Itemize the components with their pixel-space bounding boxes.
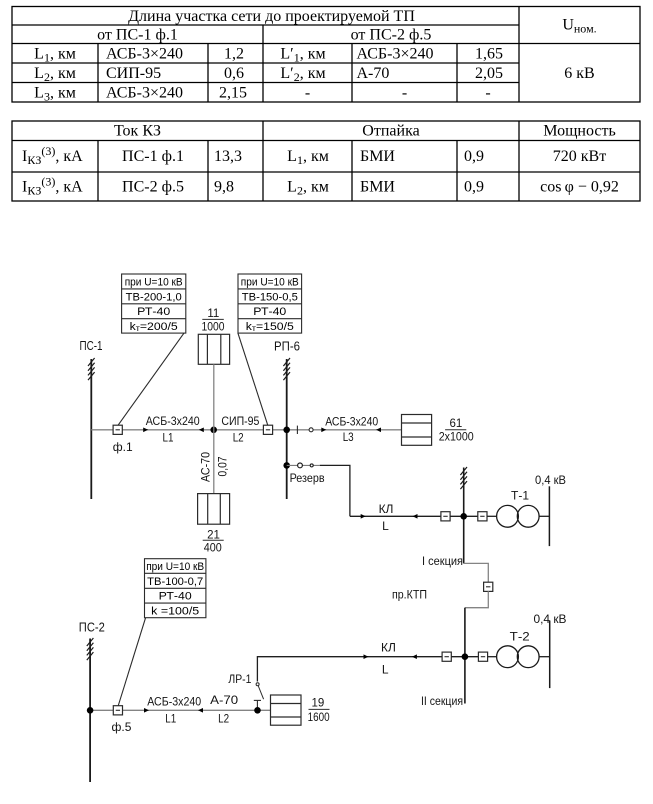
- disconnector ЛР-1 pivot circle: [256, 683, 259, 686]
- wire breaker to T-1: [487, 515, 497, 517]
- wire breaker to bus I: [450, 515, 478, 517]
- tick on L3: [296, 426, 298, 434]
- wire L1 ПС-1 to junction: [91, 429, 213, 431]
- svg-text:2,15: 2,15: [219, 84, 247, 101]
- svg-text:А-70: А-70: [210, 693, 238, 707]
- junction node I секция: [460, 513, 467, 520]
- svg-text:21: 21: [207, 529, 220, 541]
- svg-text:СИП-95: СИП-95: [221, 414, 259, 428]
- load block 19/1600: [271, 695, 302, 725]
- junction node ПС-2: [87, 707, 94, 714]
- wire ПС-2 line L1: [90, 709, 213, 711]
- wire T-2 to 0,4 кВ bus: [539, 656, 550, 658]
- svg-text:при U=10 кВ: при U=10 кВ: [241, 276, 299, 288]
- breaker on L2: [263, 425, 272, 434]
- svg-text:Резерв: Резерв: [290, 471, 325, 485]
- arrow left ПС-2 L1: [198, 708, 203, 713]
- svg-text:0,4 кВ: 0,4 кВ: [535, 473, 566, 487]
- svg-text:L2, км: L2, км: [287, 179, 329, 198]
- transformer block 21/400: [198, 494, 230, 525]
- breaker ф.1: [113, 425, 122, 434]
- svg-text:II секция: II секция: [421, 694, 463, 708]
- breaker T-2: [478, 652, 487, 661]
- svg-text:ПС-1: ПС-1: [80, 338, 103, 353]
- svg-text:L2, км: L2, км: [34, 65, 76, 84]
- info box A (при U=10 кВ / ТВ-200-1,0 / РТ-40 / kт=200/5): [122, 274, 186, 333]
- svg-text:АСБ-3×240: АСБ-3×240: [357, 45, 434, 62]
- breaker T-1: [478, 512, 487, 521]
- breaker КЛ2 left: [442, 652, 451, 661]
- wire breaker to II секция: [451, 656, 478, 658]
- svg-text:0,6: 0,6: [224, 65, 244, 82]
- svg-text:L3: L3: [343, 430, 354, 444]
- arrow right КЛ1: [361, 514, 366, 519]
- wire Резерв to КЛ corner: [320, 465, 350, 516]
- svg-text:1,65: 1,65: [475, 45, 503, 62]
- svg-text:РТ-40: РТ-40: [159, 591, 192, 603]
- fraction bar 11/1000: [202, 318, 224, 320]
- svg-text:КЛ: КЛ: [381, 640, 396, 654]
- transformer T-2: [497, 646, 519, 668]
- svg-text:0,07: 0,07: [216, 456, 230, 476]
- busbar ПС-2 hatch: [87, 638, 94, 660]
- svg-text:720 кВт: 720 кВт: [553, 148, 606, 165]
- svg-text:1000: 1000: [202, 321, 225, 333]
- svg-text:400: 400: [204, 543, 222, 555]
- svg-text:L3, км: L3, км: [34, 84, 76, 103]
- svg-text:-: -: [485, 84, 490, 101]
- svg-text:1600: 1600: [308, 712, 330, 724]
- fraction bar 21/400: [203, 539, 224, 541]
- svg-text:АСБ-3х240: АСБ-3х240: [146, 414, 200, 428]
- wire L3 РП-6 to block 61: [287, 429, 402, 431]
- busbar 0,4 кВ (T-2): [549, 621, 551, 689]
- svg-text:L′1, км: L′1, км: [280, 45, 325, 64]
- svg-text:Мощность: Мощность: [543, 122, 616, 139]
- arrow left L3: [376, 428, 381, 433]
- svg-text:L2: L2: [218, 712, 229, 726]
- svg-text:-: -: [305, 84, 310, 101]
- svg-text:пр.КТП: пр.КТП: [392, 588, 427, 602]
- svg-text:Ток КЗ: Ток КЗ: [114, 122, 161, 139]
- small circle on L3: [309, 428, 313, 432]
- svg-text:АСБ-3×240: АСБ-3×240: [106, 84, 183, 101]
- svg-text:ПС-2: ПС-2: [79, 620, 105, 635]
- svg-text:ЛР-1: ЛР-1: [228, 672, 251, 686]
- svg-text:ТВ-100-0,7: ТВ-100-0,7: [147, 576, 203, 588]
- svg-text:cos φ − 0,92: cos φ − 0,92: [540, 179, 619, 196]
- wire ЛР-1 stem to junction: [256, 700, 258, 710]
- busbar I секция hatch: [460, 467, 467, 489]
- svg-text:k =100/5: k =100/5: [151, 606, 199, 618]
- svg-text:СИП-95: СИП-95: [106, 65, 161, 82]
- svg-text:I секция: I секция: [422, 554, 463, 568]
- transformer block 11/1000: [198, 334, 229, 364]
- svg-text:IКЗ(3), кА: IКЗ(3), кА: [22, 175, 83, 198]
- svg-text:А-70: А-70: [357, 65, 390, 82]
- junction node II секция: [462, 653, 469, 660]
- svg-text:ф.5: ф.5: [112, 720, 132, 734]
- wire section link пр.КТП to corner: [465, 591, 488, 608]
- arrow left L1: [199, 428, 204, 433]
- svg-text:от ПС-1 ф.1: от ПС-1 ф.1: [97, 26, 178, 43]
- svg-text:Т-2: Т-2: [510, 629, 530, 643]
- svg-text:РП-6: РП-6: [274, 339, 300, 354]
- svg-text:АСБ-3х240: АСБ-3х240: [147, 694, 201, 708]
- svg-text:L1, км: L1, км: [34, 45, 76, 64]
- info box callout line to ф.5: [118, 618, 145, 706]
- arrow right КЛ2: [364, 654, 369, 659]
- svg-text:11: 11: [207, 308, 219, 320]
- busbar 0,4 кВ (T-1): [548, 486, 550, 546]
- disconnector circle big (Резерв): [298, 463, 303, 468]
- wire Резерв stub: [287, 464, 320, 466]
- svg-text:L1: L1: [165, 712, 176, 726]
- svg-text:L′2, км: L′2, км: [280, 65, 325, 84]
- svg-text:БМИ: БМИ: [360, 148, 395, 165]
- disconnector circle small (Резерв): [310, 464, 313, 467]
- svg-text:при U=10 кВ: при U=10 кВ: [146, 561, 204, 573]
- svg-text:Т-1: Т-1: [511, 488, 529, 502]
- svg-text:АС-70: АС-70: [198, 452, 212, 482]
- info box callout line to L2 breaker: [238, 333, 268, 425]
- junction node block 19: [254, 707, 261, 714]
- fraction bar 19/1600: [309, 708, 330, 710]
- svg-text:ф.1: ф.1: [113, 440, 133, 454]
- info box B (при U=10 кВ / ТВ-150-0,5 / РТ-40 / kт=150/5): [238, 274, 302, 333]
- svg-text:ПС-1 ф.1: ПС-1 ф.1: [122, 148, 184, 165]
- fraction bar 61/2x1000: [445, 429, 466, 431]
- svg-text:АСБ-3х240: АСБ-3х240: [325, 414, 378, 428]
- svg-text:1,2: 1,2: [224, 45, 244, 62]
- svg-text:Uном.: Uном.: [562, 17, 596, 36]
- svg-text:-: -: [402, 84, 407, 101]
- arrow left КЛ1: [413, 514, 418, 519]
- svg-text:0,4 кВ: 0,4 кВ: [534, 612, 567, 626]
- wire L2 junction to РП-6: [214, 429, 287, 431]
- wire section link I to пр.КТП breaker: [464, 563, 489, 582]
- svg-text:РТ-40: РТ-40: [253, 306, 286, 318]
- svg-text:61: 61: [450, 418, 463, 430]
- svg-text:РТ-40: РТ-40: [137, 306, 170, 318]
- svg-text:2х1000: 2х1000: [439, 431, 474, 443]
- svg-text:kт=150/5: kт=150/5: [246, 321, 294, 333]
- load block 61/2x1000: [402, 415, 432, 446]
- svg-text:L1: L1: [163, 431, 174, 445]
- svg-text:Отпайка: Отпайка: [362, 122, 419, 139]
- info box C (при U=10 кВ / ТВ-100-0,7 / РТ-40 / k =100/5): [145, 559, 206, 618]
- wire breaker to T-2: [488, 656, 497, 658]
- svg-text:Длина участка сети до проектир: Длина участка сети до проектируемой ТП: [128, 8, 415, 25]
- breaker ф.5: [113, 706, 122, 715]
- svg-text:L: L: [382, 663, 389, 677]
- svg-text:6 кВ: 6 кВ: [564, 65, 594, 82]
- arrow right L3: [321, 428, 326, 433]
- junction node L1/L2/АС-70: [210, 427, 217, 434]
- wire block 11 drop to L1 junction: [213, 364, 215, 430]
- svg-text:L: L: [382, 519, 389, 533]
- svg-text:КЛ: КЛ: [379, 502, 394, 516]
- junction node Резерв on РП-6 bus: [283, 462, 290, 469]
- svg-text:2,05: 2,05: [475, 65, 503, 82]
- busbar ПС-1 hatch: [88, 358, 95, 380]
- info box callout line to ф.1: [118, 333, 184, 425]
- arrow right L1: [143, 428, 148, 433]
- busbar I секция: [463, 468, 465, 564]
- arrow right ПС-2 L1: [144, 708, 149, 713]
- junction node РП-6: [283, 427, 290, 434]
- disconnector ЛР-1 jaw T-bar: [254, 699, 261, 701]
- breaker КЛ1 left: [441, 512, 450, 521]
- busbar II секция vertical: [464, 608, 466, 704]
- breaker пр.КТП: [484, 582, 493, 591]
- busbar ПС-1: [90, 359, 92, 499]
- busbar РП-6: [286, 359, 288, 499]
- svg-text:L1, км: L1, км: [287, 148, 329, 167]
- svg-text:ТВ-200-1,0: ТВ-200-1,0: [126, 291, 182, 303]
- svg-text:IКЗ(3), кА: IКЗ(3), кА: [22, 144, 83, 167]
- svg-text:L2: L2: [233, 431, 244, 445]
- arrow left КЛ2: [412, 654, 417, 659]
- transformer T-1: [497, 505, 519, 527]
- disconnector ЛР-1 blade: [258, 686, 263, 699]
- wire T-1 to 0,4 кВ bus: [539, 515, 549, 517]
- wire КЛ2 ЛР-1 corner to T-2 breaker: [257, 657, 441, 682]
- busbar ПС-2: [89, 639, 91, 783]
- svg-text:kт=200/5: kт=200/5: [130, 321, 178, 333]
- busbar РП-6 hatch: [283, 358, 290, 380]
- svg-text:9,8: 9,8: [214, 179, 234, 196]
- svg-text:БМИ: БМИ: [360, 179, 395, 196]
- wire ПС-2 line L2 to block 19: [213, 709, 271, 711]
- svg-text:19: 19: [312, 697, 325, 709]
- wire КЛ L to I секция: [350, 515, 441, 517]
- svg-text:от ПС-2 ф.5: от ПС-2 ф.5: [351, 26, 432, 43]
- svg-text:при U=10 кВ: при U=10 кВ: [125, 276, 183, 288]
- wire АС-70 junction down to block 21: [213, 430, 215, 494]
- svg-text:0,9: 0,9: [464, 148, 484, 165]
- svg-text:ТВ-150-0,5: ТВ-150-0,5: [242, 291, 298, 303]
- svg-text:0,9: 0,9: [464, 179, 484, 196]
- svg-text:АСБ-3×240: АСБ-3×240: [106, 45, 183, 62]
- svg-text:ПС-2 ф.5: ПС-2 ф.5: [122, 179, 184, 196]
- svg-text:13,3: 13,3: [214, 148, 242, 165]
